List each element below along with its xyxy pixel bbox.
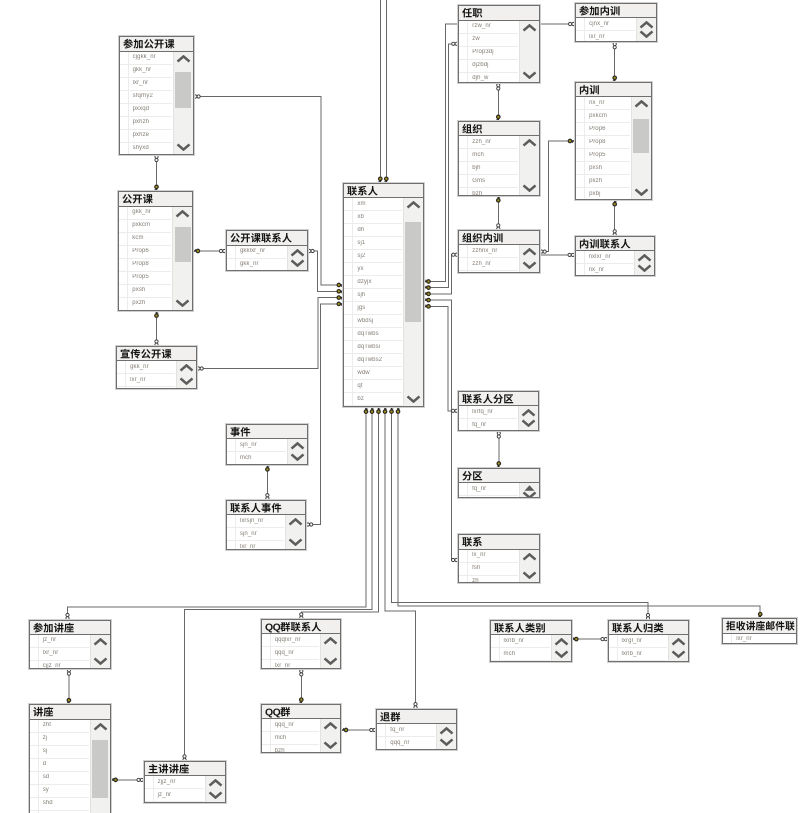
wire relationship 联系人-组织内训 <box>424 253 458 296</box>
table 拒收讲座邮件联 <box>722 618 796 644</box>
wire relationship 联系人-参加公开课 <box>194 95 344 287</box>
table 联系人归类 <box>608 620 689 663</box>
wire relationship 内训-参加内训 <box>613 42 617 82</box>
wire relationship 联系人-QQ群联系人 <box>300 407 381 619</box>
table 联系人 <box>343 183 424 407</box>
wire relationship 联系人-参加讲座 <box>66 407 368 620</box>
wire relationship 联系人-宣传公开课 <box>197 296 344 370</box>
wire relationship 联系人-主讲讲座 <box>183 407 374 761</box>
wire relationship 联系人-联系人分区 <box>424 305 458 413</box>
table 事件 <box>226 424 308 465</box>
svg-text:Q: Q <box>272 707 280 718</box>
wire relationship 公开课-公开课联系人 <box>193 249 226 253</box>
table 参加公开课 <box>119 36 194 155</box>
wire relationship 联系人-offpage-1 <box>378 0 382 183</box>
table 联系人分区 <box>458 391 539 432</box>
table 参加内训 <box>575 3 657 43</box>
wire relationship 事件-联系人事件 <box>266 465 270 500</box>
table 联系人类别 <box>490 620 572 663</box>
table 组织内训 <box>458 230 539 273</box>
wire relationship 讲座-主讲讲座 <box>111 778 144 782</box>
table 公开课联系人 <box>226 230 308 270</box>
table 退群 <box>376 709 456 751</box>
wire relationship 联系人-联系人事件 <box>306 302 343 526</box>
table 联系 <box>458 534 540 583</box>
wire relationship 联系人类别-联系人归类 <box>572 637 608 641</box>
wire relationship 联系人-offpage-2 <box>384 0 388 183</box>
wire relationship 内训-组织内训 <box>540 139 575 253</box>
table 组织 <box>458 121 539 196</box>
wire relationship 联系人-拒收讲座邮件联系人 <box>396 407 762 619</box>
table QQ群 <box>261 704 342 753</box>
table 任职 <box>458 5 539 83</box>
wire relationship 组织-组织内训 <box>497 196 501 231</box>
table 参加讲座 <box>29 620 111 669</box>
wire relationship 公开课-参加公开课 <box>155 155 159 192</box>
table 分区 <box>458 468 540 499</box>
wire relationship 联系人-任职 <box>424 42 458 289</box>
wire relationship 公开课-宣传公开课 <box>155 311 159 347</box>
wire relationship 讲座-参加讲座 <box>67 669 71 705</box>
svg-text:Q: Q <box>272 622 280 633</box>
wire relationship 组织-任职 <box>496 84 500 122</box>
table 内训 <box>575 82 652 200</box>
wire relationship 联系人-联系 <box>424 298 458 561</box>
wire relationship 分区-联系人分区 <box>497 432 501 469</box>
wire relationship QQ群-退群 <box>341 728 376 732</box>
wire relationship 内训-内训联系人 <box>613 200 617 237</box>
table 联系人事件 <box>226 500 306 550</box>
wire relationship 联系人-公开课联系人 <box>308 249 344 293</box>
table 公开课 <box>118 191 193 311</box>
wire relationship QQ群-QQ群联系人 <box>299 669 303 704</box>
table 内训联系人 <box>575 236 656 276</box>
wire relationship 联系人-参加内训 <box>424 22 575 283</box>
table 主讲讲座 <box>144 761 226 803</box>
wire relationship 组织内训-内训联系人 <box>540 253 575 256</box>
wire relationship 联系人-退群 <box>383 407 417 709</box>
table 宣传公开课 <box>116 346 197 389</box>
table QQ群联系人 <box>261 619 342 670</box>
wire relationship 联系人-联系人归类 <box>390 407 650 620</box>
table 讲座 <box>29 704 111 813</box>
